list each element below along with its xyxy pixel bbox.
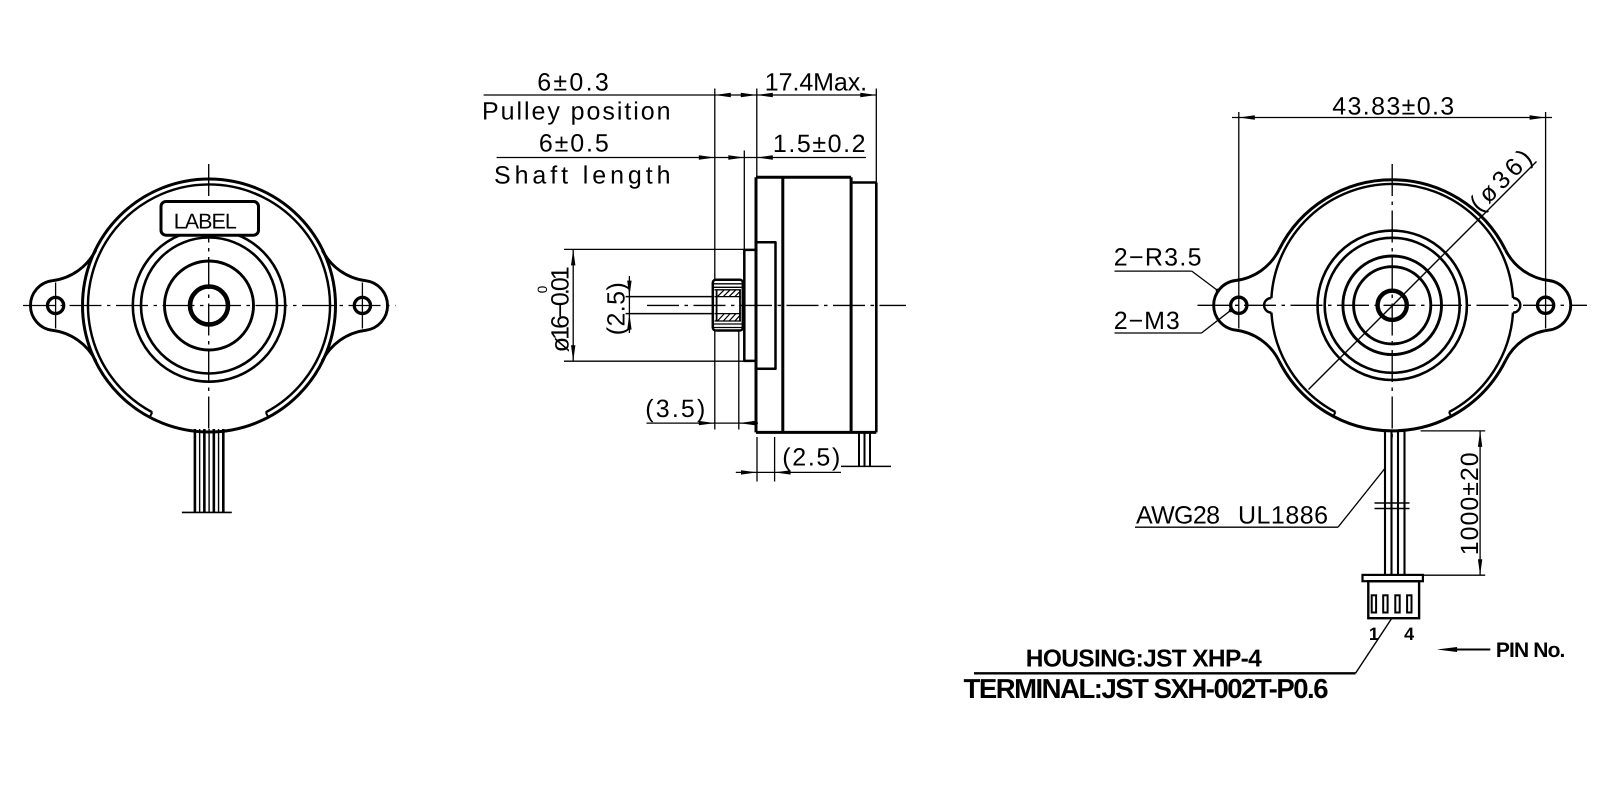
svg-text:2−M3: 2−M3 [1114, 307, 1182, 335]
svg-text:Pulley position: Pulley position [482, 98, 673, 126]
svg-text:LABEL: LABEL [174, 209, 239, 233]
svg-text:AWG28: AWG28 [1136, 502, 1222, 530]
svg-text:43.83±0.3: 43.83±0.3 [1332, 93, 1456, 121]
svg-text:(2.5): (2.5) [782, 444, 842, 472]
svg-text:(3.5): (3.5) [645, 395, 707, 423]
svg-text:1.5±0.2: 1.5±0.2 [773, 130, 868, 158]
svg-text:UL1886: UL1886 [1238, 502, 1330, 530]
svg-text:2−R3.5: 2−R3.5 [1114, 244, 1204, 272]
svg-text:PIN No.: PIN No. [1496, 639, 1566, 662]
svg-text:Shaft length: Shaft length [494, 162, 673, 190]
svg-text:6±0.5: 6±0.5 [539, 130, 611, 158]
svg-text:0: 0 [535, 286, 550, 294]
svg-text:(2.5): (2.5) [603, 280, 631, 335]
svg-text:HOUSING:JST XHP-4: HOUSING:JST XHP-4 [1026, 646, 1262, 673]
svg-text:1000±20: 1000±20 [1456, 450, 1484, 555]
svg-text:4: 4 [1404, 624, 1414, 644]
svg-text:6±0.3: 6±0.3 [537, 69, 611, 97]
svg-text:17.4Max.: 17.4Max. [765, 69, 869, 97]
svg-text:ø16−0.01: ø16−0.01 [547, 264, 575, 352]
svg-text:TERMINAL:JST SXH-002T-P0.6: TERMINAL:JST SXH-002T-P0.6 [964, 673, 1329, 704]
